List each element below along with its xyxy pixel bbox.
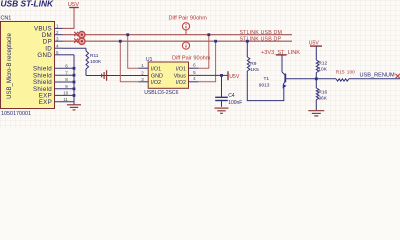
no-ERC cross on DP <box>74 38 78 42</box>
junction R9 DP <box>246 40 249 43</box>
svg-text:1K5: 1K5 <box>250 67 259 73</box>
svg-text:U1: U1 <box>146 57 153 63</box>
wire base to divider <box>285 78 336 80</box>
resistor R15 <box>336 69 355 81</box>
svg-text:100nF: 100nF <box>228 100 242 106</box>
svg-text:9013: 9013 <box>259 82 270 88</box>
U1 pin texts row1 <box>151 66 186 72</box>
svg-text:10: 10 <box>63 91 69 96</box>
power port U5V mid <box>228 71 240 80</box>
svg-text:10K: 10K <box>318 66 327 72</box>
CN1 pin 4 stub <box>55 43 63 48</box>
svg-text:USBLC6-2SC6: USBLC6-2SC6 <box>144 90 178 96</box>
no-ERC cross USB RENUM <box>396 74 400 79</box>
svg-text:I/O1: I/O1 <box>151 66 161 72</box>
svg-text:100K: 100K <box>90 59 102 65</box>
wire DP net <box>63 40 293 42</box>
junction shield bus dots <box>73 67 76 97</box>
svg-text:CN1: CN1 <box>1 16 12 22</box>
ground sideways on rail <box>102 70 107 81</box>
ground R16 <box>308 111 324 116</box>
resistor R16 <box>316 79 327 110</box>
directive Diff Pair 90ohm top <box>169 15 208 34</box>
resistor R11 <box>86 48 102 75</box>
wire DP drop to U1 pin3 <box>120 41 138 82</box>
CN1 pin 5 stub <box>55 50 63 55</box>
wire DP to U1 pin4 <box>199 41 216 82</box>
U1 pin numbers left <box>141 63 144 82</box>
wire GND pin5 to bus <box>63 54 75 56</box>
wire DM net <box>63 34 293 36</box>
svg-text:1050170001: 1050170001 <box>1 111 31 117</box>
svg-text:Diff Pair 90ohm: Diff Pair 90ohm <box>172 56 211 62</box>
svg-text:36K: 36K <box>318 96 327 102</box>
CN1 pin 6 stub <box>55 64 75 69</box>
ground C4 <box>215 108 229 113</box>
U1 pin texts row2 <box>151 74 186 80</box>
capacitor C4 <box>215 93 242 107</box>
svg-text:T1: T1 <box>264 76 270 82</box>
CN1 pin 3 stub <box>55 36 63 41</box>
svg-text:I/O2: I/O2 <box>151 80 161 86</box>
svg-text:STLINK USB DP: STLINK USB DP <box>240 36 282 42</box>
svg-text:USB_Micro-B receptacle: USB_Micro-B receptacle <box>7 32 13 98</box>
diff pair marker on DM <box>79 32 85 38</box>
wire R9 to emitter <box>247 71 283 101</box>
wire U5V to R12 <box>315 46 317 60</box>
junction DM drop <box>126 33 129 36</box>
svg-text:R15: R15 <box>336 69 345 75</box>
wire ground rail <box>86 75 148 77</box>
ESD protection U1 body <box>144 57 188 96</box>
svg-text:R9: R9 <box>250 61 256 67</box>
svg-text:GND: GND <box>151 74 163 80</box>
svg-text:Vbus: Vbus <box>174 74 187 80</box>
svg-text:11: 11 <box>63 97 68 102</box>
power port U5V right <box>309 40 322 46</box>
CN1 pin 9 stub <box>55 84 75 89</box>
svg-text:EXP: EXP <box>39 99 52 106</box>
wire shield bus <box>73 55 75 105</box>
wire VBUS to U5V <box>63 8 75 29</box>
CN1 pin 1 stub <box>55 24 63 29</box>
connector CN1 USB Micro-B receptacle body <box>1 22 55 109</box>
wire 3V3 to collector <box>281 55 283 72</box>
CN1 pin 7 stub <box>55 70 75 75</box>
svg-text:R16: R16 <box>318 90 327 96</box>
svg-text:100: 100 <box>347 69 355 75</box>
svg-text:Diff Pair 90ohm: Diff Pair 90ohm <box>169 15 208 21</box>
power port U5V top <box>68 2 79 8</box>
svg-text:I/O2: I/O2 <box>176 80 186 86</box>
svg-text:STLINK USB DM: STLINK USB DM <box>240 30 283 36</box>
svg-text:GND: GND <box>37 52 52 59</box>
wire Vbus to C4 <box>221 75 223 97</box>
transistor T1 9013 <box>259 72 287 89</box>
wire ID to R11 <box>63 47 87 49</box>
svg-text:I/O1: I/O1 <box>176 66 186 72</box>
no-ERC cross on DM <box>74 32 78 36</box>
CN1 pin 8 stub <box>55 77 75 82</box>
U1 pin numbers right <box>193 63 196 82</box>
wire U1 Vbus to U5V <box>189 74 229 76</box>
wire DM drop to U1 pin1 <box>128 35 139 68</box>
junction DM pin6 <box>207 33 210 36</box>
CN1 pin 10 stub <box>55 91 75 96</box>
svg-text:U5V: U5V <box>229 74 240 80</box>
svg-text:USB_RENUM: USB_RENUM <box>360 72 395 78</box>
svg-text:C4: C4 <box>228 93 235 99</box>
CN1 pin 11 stub <box>55 97 75 102</box>
wire R15 to USB RENUM <box>349 78 400 80</box>
svg-text:U5V: U5V <box>68 2 79 8</box>
power port +3V3 ST LINK <box>261 50 300 56</box>
wire DP to R9 <box>246 41 248 57</box>
junction Vbus C4 <box>220 74 223 77</box>
U1 pin texts row3 <box>151 80 186 86</box>
CN1 pin 2 stub <box>55 30 63 35</box>
junction DP pin4 <box>214 40 217 43</box>
wire DM to U1 pin6 <box>199 35 209 68</box>
svg-text:R12: R12 <box>318 60 327 66</box>
diff pair marker on DP <box>79 38 85 44</box>
ground shield <box>67 105 81 110</box>
junction DP drop <box>119 40 122 43</box>
directive Diff Pair 90ohm bottom <box>172 41 211 61</box>
resistor R9 <box>247 57 259 73</box>
svg-text:DP: DP <box>43 38 52 45</box>
svg-text:USB ST-LINK: USB ST-LINK <box>1 0 55 9</box>
resistor R12 <box>316 60 327 79</box>
svg-text:R11: R11 <box>90 53 99 59</box>
junction base divider <box>315 77 318 80</box>
